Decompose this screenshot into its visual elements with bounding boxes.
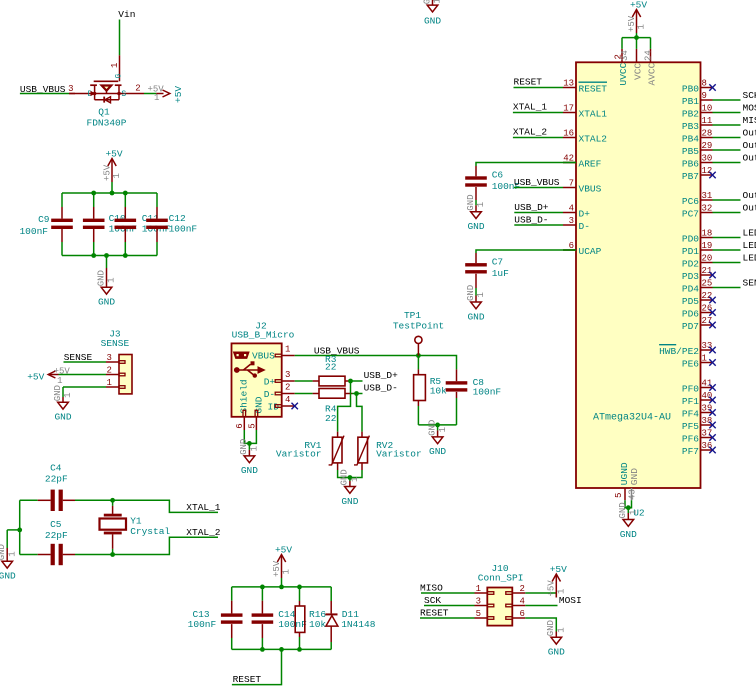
svg-text:24: 24 bbox=[643, 50, 653, 61]
no-connect PF6 bbox=[709, 434, 715, 440]
svg-text:C7: C7 bbox=[492, 257, 503, 268]
svg-text:100nF: 100nF bbox=[188, 619, 217, 630]
svg-text:26: 26 bbox=[702, 304, 713, 314]
junction bbox=[123, 191, 128, 196]
wire Vin vertical bbox=[119, 20, 121, 56]
wire USB_VBUS to Q1 drain bbox=[20, 93, 69, 95]
pin 28 PB4 bbox=[682, 129, 713, 145]
capacitor C6 100nF bbox=[465, 166, 520, 205]
svg-text:PD2: PD2 bbox=[682, 258, 699, 269]
pin GND bbox=[628, 468, 640, 500]
svg-text:Varistor: Varistor bbox=[376, 449, 422, 460]
svg-text:37: 37 bbox=[702, 429, 713, 439]
svg-text:D-: D- bbox=[264, 389, 275, 400]
svg-text:4: 4 bbox=[520, 597, 525, 607]
wire J10 pin4 MOSI bbox=[525, 605, 557, 607]
svg-text:USB_D-: USB_D- bbox=[364, 383, 398, 394]
capacitor C14 100nF bbox=[252, 587, 308, 650]
svg-text:1: 1 bbox=[438, 427, 448, 432]
svg-text:PB3: PB3 bbox=[682, 121, 699, 132]
transistor Q1 FDN340P bbox=[68, 55, 144, 128]
junction bbox=[247, 441, 252, 446]
svg-text:Conn_SPI: Conn_SPI bbox=[478, 572, 524, 583]
svg-text:PB6: PB6 bbox=[682, 158, 699, 169]
connector J3 SENSE bbox=[101, 329, 132, 394]
svg-text:GND: GND bbox=[427, 420, 437, 436]
capacitor C12 100nF bbox=[146, 193, 197, 256]
ground below J2 bbox=[239, 439, 259, 477]
wire PB2 to MOSI bbox=[713, 112, 741, 114]
svg-text:28: 28 bbox=[702, 129, 713, 139]
wire PC7 to Output bbox=[713, 212, 741, 214]
wire PB1 to SCK bbox=[713, 99, 741, 101]
connector J10 Conn_SPI bbox=[475, 563, 526, 626]
junction bbox=[110, 191, 115, 196]
svg-text:38: 38 bbox=[702, 416, 713, 426]
svg-text:PF0: PF0 bbox=[682, 383, 699, 394]
svg-text:1: 1 bbox=[57, 376, 62, 386]
no-connect PF5 bbox=[709, 422, 715, 428]
wire GND rail bottom bbox=[62, 255, 157, 257]
pin 26 PD6 bbox=[682, 304, 713, 320]
no-connect PB0 bbox=[709, 84, 715, 90]
svg-text:1: 1 bbox=[282, 569, 292, 574]
svg-text:PD6: PD6 bbox=[682, 308, 699, 319]
svg-text:Varistor: Varistor bbox=[276, 449, 322, 460]
wire MISO bbox=[421, 592, 475, 594]
pin 24 AVCC bbox=[643, 49, 657, 86]
pin 40 PF1 bbox=[682, 391, 713, 407]
pin 20 PD2 bbox=[682, 254, 713, 270]
ground below U2 bbox=[618, 502, 638, 540]
no-connect PF1 bbox=[709, 397, 715, 403]
svg-text:20: 20 bbox=[702, 254, 713, 264]
svg-text:RESET: RESET bbox=[233, 674, 262, 685]
pin 33 HWB/PE2 bbox=[659, 341, 712, 357]
svg-text:22: 22 bbox=[325, 413, 337, 424]
svg-text:1: 1 bbox=[557, 627, 567, 632]
resistor R3 22 bbox=[295, 354, 351, 386]
svg-text:GND: GND bbox=[340, 469, 350, 485]
svg-text:10k: 10k bbox=[430, 386, 447, 397]
svg-text:1: 1 bbox=[629, 510, 639, 515]
svg-text:LED_RX: LED_RX bbox=[743, 240, 756, 251]
svg-text:AREF: AREF bbox=[579, 158, 602, 169]
svg-text:FDN340P: FDN340P bbox=[87, 118, 127, 129]
svg-text:PD4: PD4 bbox=[682, 283, 699, 294]
svg-text:PD0: PD0 bbox=[682, 233, 699, 244]
svg-text:2: 2 bbox=[285, 383, 290, 393]
svg-text:1: 1 bbox=[476, 584, 481, 594]
svg-text:PC7: PC7 bbox=[682, 208, 699, 219]
no-connect J2 pin4 bbox=[292, 403, 298, 409]
wire USB_D- bbox=[514, 224, 563, 226]
junction bbox=[354, 391, 359, 396]
svg-text:USB_B_Micro: USB_B_Micro bbox=[232, 330, 295, 341]
svg-text:5: 5 bbox=[476, 609, 481, 619]
pin 3 D- bbox=[563, 216, 590, 232]
junction bbox=[104, 253, 109, 258]
svg-text:Vin: Vin bbox=[118, 9, 135, 20]
pin 41 PF0 bbox=[682, 379, 713, 395]
svg-text:2: 2 bbox=[135, 84, 140, 94]
power +5V right of J10 bbox=[547, 564, 567, 598]
pin 31 PC6 bbox=[682, 191, 713, 207]
svg-text:100nF: 100nF bbox=[473, 387, 502, 398]
pin 22 PD5 bbox=[682, 291, 713, 307]
svg-text:8: 8 bbox=[702, 79, 707, 89]
pin 29 PB5 bbox=[682, 141, 713, 157]
no-connect PD7 bbox=[709, 322, 715, 328]
pin 8 PB0 bbox=[682, 79, 713, 95]
svg-text:1: 1 bbox=[476, 202, 486, 207]
wire +5V rail top bbox=[62, 192, 157, 194]
pin 25 PD4 bbox=[682, 279, 713, 295]
junction bbox=[17, 528, 22, 533]
svg-text:3: 3 bbox=[285, 370, 290, 380]
svg-text:C4: C4 bbox=[50, 462, 62, 473]
junction bbox=[91, 191, 96, 196]
pin 27 PD7 bbox=[682, 316, 713, 332]
junction bbox=[279, 585, 284, 590]
svg-text:6: 6 bbox=[235, 423, 245, 428]
wire Q1 source to +5V bbox=[144, 93, 156, 95]
svg-text:C10: C10 bbox=[109, 213, 126, 224]
junction bbox=[110, 498, 115, 503]
pin 18 PD0 bbox=[682, 229, 713, 245]
svg-text:PE6: PE6 bbox=[682, 358, 699, 369]
ground below varistors bbox=[340, 469, 360, 507]
svg-text:MISO: MISO bbox=[420, 583, 443, 594]
svg-text:41: 41 bbox=[702, 379, 713, 389]
svg-text:XTAL1: XTAL1 bbox=[579, 108, 608, 119]
svg-text:+5V: +5V bbox=[550, 564, 567, 575]
wire PD0 to LED_TX bbox=[713, 237, 741, 239]
svg-text:VBUS: VBUS bbox=[252, 350, 275, 361]
wire SENSE to J3 pin3 bbox=[64, 361, 107, 363]
capacitor C10 100nF bbox=[83, 193, 138, 256]
svg-text:RESET: RESET bbox=[420, 608, 449, 619]
wire PB3 to MISO bbox=[713, 124, 741, 126]
wire UCAP to C7 bbox=[476, 250, 576, 253]
power +5V right of Q1 bbox=[148, 85, 185, 104]
svg-text:1: 1 bbox=[476, 292, 486, 297]
svg-text:Output: Output bbox=[743, 140, 756, 151]
wire J10 pin6 to GND bbox=[525, 618, 556, 632]
svg-text:1: 1 bbox=[154, 93, 159, 103]
svg-text:SENSE: SENSE bbox=[743, 277, 756, 288]
svg-text:C5: C5 bbox=[50, 519, 62, 530]
wire AREF stub bbox=[563, 162, 576, 164]
varistor RV1 bbox=[276, 436, 344, 465]
pin 13 RESET bbox=[563, 79, 607, 95]
junction bbox=[634, 35, 639, 40]
svg-text:+5V: +5V bbox=[547, 580, 557, 597]
svg-text:1: 1 bbox=[106, 378, 111, 388]
pin 19 PD1 bbox=[682, 241, 713, 257]
power +5V above cap bank bbox=[102, 149, 122, 194]
svg-text:3: 3 bbox=[476, 597, 481, 607]
diode D11 1N4148 bbox=[325, 587, 375, 650]
svg-text:PD7: PD7 bbox=[682, 321, 699, 332]
svg-text:PB0: PB0 bbox=[682, 83, 699, 94]
svg-text:22pF: 22pF bbox=[45, 530, 68, 541]
varistor RV2 bbox=[354, 436, 422, 465]
pin 6 UCAP bbox=[563, 241, 602, 257]
pin 38 PF5 bbox=[682, 416, 713, 432]
ground top middle bbox=[422, 0, 442, 27]
pin 5 UGND bbox=[614, 462, 630, 500]
svg-text:VBUS: VBUS bbox=[579, 183, 602, 194]
svg-text:22: 22 bbox=[702, 291, 713, 301]
svg-text:GND: GND bbox=[467, 311, 484, 322]
svg-text:PF1: PF1 bbox=[682, 396, 699, 407]
svg-text:GND: GND bbox=[429, 446, 446, 457]
junction bbox=[348, 379, 353, 384]
ground below J3 bbox=[53, 385, 73, 423]
svg-text:PD1: PD1 bbox=[682, 246, 699, 257]
svg-text:34: 34 bbox=[620, 50, 630, 61]
wire PD2 to LED_L bbox=[713, 262, 741, 264]
svg-text:MOSI: MOSI bbox=[743, 102, 756, 113]
resistor R4 22 bbox=[295, 389, 352, 424]
pin 17 XTAL1 bbox=[563, 104, 607, 120]
junction bbox=[297, 585, 302, 590]
svg-text:7: 7 bbox=[569, 179, 574, 189]
resistor R5 10k bbox=[414, 356, 448, 425]
svg-text:1N4148: 1N4148 bbox=[341, 619, 376, 630]
wire VCC rail bbox=[622, 37, 651, 39]
svg-text:GND: GND bbox=[629, 468, 640, 485]
connector J2 USB_B_Micro bbox=[232, 321, 295, 431]
svg-text:Q1: Q1 bbox=[98, 107, 110, 118]
wire AREF to C6 bbox=[476, 163, 576, 167]
wire to RESET label bbox=[232, 649, 282, 684]
pin 42 AREF bbox=[563, 154, 602, 170]
svg-text:PF6: PF6 bbox=[682, 433, 699, 444]
no-connect PB7 bbox=[709, 172, 715, 178]
svg-text:HWB/PE2: HWB/PE2 bbox=[659, 346, 699, 357]
svg-text:Output: Output bbox=[743, 127, 756, 138]
svg-text:PB2: PB2 bbox=[682, 108, 699, 119]
svg-text:GND: GND bbox=[466, 194, 476, 210]
svg-text:33: 33 bbox=[702, 341, 713, 351]
svg-text:PB1: PB1 bbox=[682, 96, 699, 107]
ground left of crystal bbox=[0, 544, 17, 582]
wire XTAL_2 bbox=[113, 537, 218, 554]
svg-text:SENSE: SENSE bbox=[101, 338, 130, 349]
svg-text:9: 9 bbox=[702, 91, 707, 101]
no-connect PD6 bbox=[709, 309, 715, 315]
wire XTAL_2 bbox=[513, 137, 563, 139]
svg-text:LED_L: LED_L bbox=[743, 252, 756, 263]
svg-text:USB_D+: USB_D+ bbox=[364, 370, 399, 381]
svg-text:GND: GND bbox=[0, 544, 7, 560]
svg-text:1: 1 bbox=[702, 354, 707, 364]
svg-text:GND: GND bbox=[0, 571, 16, 582]
wire XTAL_1 bbox=[513, 112, 563, 114]
power +5V left of J3 bbox=[27, 367, 70, 387]
wire USB_D+ bbox=[514, 212, 563, 214]
svg-text:Y1: Y1 bbox=[130, 515, 142, 526]
svg-text:USB_VBUS: USB_VBUS bbox=[314, 345, 360, 356]
svg-text:XTAL_1: XTAL_1 bbox=[186, 502, 221, 513]
svg-text:6: 6 bbox=[520, 609, 525, 619]
ground below J10 bbox=[546, 620, 566, 658]
svg-text:1uF: 1uF bbox=[492, 268, 509, 279]
pin 10 PB2 bbox=[682, 104, 713, 120]
svg-text:21: 21 bbox=[702, 266, 713, 276]
svg-text:Output: Output bbox=[743, 152, 756, 163]
no-connect PD3 bbox=[709, 272, 715, 278]
capacitor C5 22pF bbox=[20, 519, 113, 565]
svg-text:RESET: RESET bbox=[579, 83, 608, 94]
crystal Y1 bbox=[100, 500, 171, 554]
svg-text:GND: GND bbox=[239, 439, 249, 455]
svg-text:Output: Output bbox=[743, 202, 756, 213]
svg-text:USB_D-: USB_D- bbox=[514, 214, 548, 225]
svg-text:XTAL_1: XTAL_1 bbox=[513, 102, 548, 113]
svg-text:+5V: +5V bbox=[272, 560, 282, 577]
svg-text:D+: D+ bbox=[579, 208, 591, 219]
pin 9 PB1 bbox=[682, 91, 713, 107]
svg-text:GND: GND bbox=[618, 502, 628, 518]
svg-text:SCK: SCK bbox=[743, 90, 756, 101]
svg-text:100nF: 100nF bbox=[169, 223, 198, 234]
svg-text:GND: GND bbox=[98, 297, 115, 308]
wire D+ branch to RV1 bbox=[338, 381, 351, 432]
svg-text:UCAP: UCAP bbox=[579, 246, 602, 257]
svg-text:+5V: +5V bbox=[627, 15, 637, 32]
svg-text:1: 1 bbox=[112, 173, 122, 178]
svg-text:GND: GND bbox=[341, 496, 358, 507]
no-connect PF0 bbox=[709, 384, 715, 390]
svg-text:5: 5 bbox=[614, 493, 624, 498]
svg-text:GND: GND bbox=[466, 285, 476, 301]
junction bbox=[348, 475, 353, 480]
svg-text:16: 16 bbox=[563, 129, 574, 139]
wire RESET bbox=[420, 617, 475, 619]
svg-text:TP1: TP1 bbox=[404, 310, 421, 321]
svg-text:22: 22 bbox=[325, 362, 337, 373]
svg-text:27: 27 bbox=[702, 316, 713, 326]
pin 4 D+ bbox=[563, 204, 590, 220]
svg-text:+5V: +5V bbox=[275, 545, 292, 556]
svg-text:100nF: 100nF bbox=[278, 619, 307, 630]
svg-text:LED_TX: LED_TX bbox=[743, 227, 756, 238]
svg-text:PF4: PF4 bbox=[682, 408, 699, 419]
svg-text:1: 1 bbox=[433, 0, 443, 4]
wire PD1 to LED_RX bbox=[713, 249, 741, 251]
pin 34 VCC bbox=[620, 49, 643, 80]
svg-text:GND: GND bbox=[241, 465, 258, 476]
no-connect PF7 bbox=[709, 447, 715, 453]
svg-text:Shield: Shield bbox=[238, 379, 249, 413]
capacitor C9 100nF bbox=[19, 193, 72, 256]
svg-text:ATmega32U4-AU: ATmega32U4-AU bbox=[593, 413, 671, 424]
wire varistors to gnd bbox=[337, 463, 339, 470]
pin 21 PD3 bbox=[682, 266, 713, 282]
svg-text:USB_D+: USB_D+ bbox=[514, 202, 549, 213]
wire USB_D- bbox=[352, 393, 363, 395]
svg-text:PB4: PB4 bbox=[682, 133, 699, 144]
wire SCK bbox=[424, 605, 475, 607]
svg-text:1: 1 bbox=[63, 392, 73, 397]
junction bbox=[260, 585, 265, 590]
svg-text:1: 1 bbox=[250, 446, 260, 451]
svg-text:C9: C9 bbox=[38, 214, 50, 225]
power +5V above U2 bbox=[627, 0, 647, 38]
svg-text:PD5: PD5 bbox=[682, 296, 699, 307]
wire J2 shield-gnd hook bbox=[244, 430, 256, 443]
resistor R16 10k bbox=[295, 587, 326, 650]
svg-text:D-: D- bbox=[579, 221, 590, 232]
svg-text:USB_VBUS: USB_VBUS bbox=[514, 177, 560, 188]
ground below cap bank bbox=[96, 256, 116, 308]
svg-text:18: 18 bbox=[702, 229, 713, 239]
svg-text:PB7: PB7 bbox=[682, 171, 699, 182]
svg-text:1: 1 bbox=[637, 24, 647, 29]
svg-text:SCK: SCK bbox=[424, 595, 441, 606]
svg-text:100nF: 100nF bbox=[19, 226, 48, 237]
svg-text:AVCC: AVCC bbox=[646, 62, 657, 85]
svg-text:1: 1 bbox=[285, 345, 290, 355]
pin 16 XTAL2 bbox=[563, 129, 607, 145]
wire XTAL_1 bbox=[113, 500, 218, 512]
svg-text:GND: GND bbox=[96, 270, 106, 286]
svg-text:39: 39 bbox=[702, 404, 713, 414]
capacitor C8 100nF bbox=[446, 369, 502, 425]
wire R5/C8 gnd rail bbox=[418, 424, 456, 426]
svg-text:10: 10 bbox=[702, 104, 713, 114]
wire PD4 to SENSE bbox=[713, 287, 741, 289]
pin 1 PE6 bbox=[682, 354, 713, 370]
svg-text:RESET: RESET bbox=[514, 77, 543, 88]
junction bbox=[110, 552, 115, 557]
svg-text:5: 5 bbox=[247, 423, 257, 428]
svg-text:PF7: PF7 bbox=[682, 446, 699, 457]
svg-text:4: 4 bbox=[569, 204, 574, 214]
svg-text:D+: D+ bbox=[264, 376, 276, 387]
svg-text:4: 4 bbox=[285, 395, 290, 405]
pin 39 PF4 bbox=[682, 404, 713, 420]
svg-text:TestPoint: TestPoint bbox=[393, 321, 444, 332]
pin 36 PF7 bbox=[682, 441, 713, 457]
svg-text:2: 2 bbox=[520, 584, 525, 594]
no-connect PD5 bbox=[709, 297, 715, 303]
svg-text:S: S bbox=[121, 90, 126, 99]
svg-text:PD3: PD3 bbox=[682, 271, 699, 282]
svg-text:13: 13 bbox=[563, 79, 574, 89]
svg-text:GND: GND bbox=[422, 0, 432, 4]
svg-text:1: 1 bbox=[557, 589, 567, 594]
svg-text:GND: GND bbox=[424, 16, 441, 27]
svg-text:19: 19 bbox=[702, 241, 713, 251]
wire PC6 to Output bbox=[713, 199, 741, 201]
wire D- branch to RV2 bbox=[357, 394, 363, 432]
svg-text:30: 30 bbox=[702, 154, 713, 164]
ic U2 ATmega32U4-AU bbox=[576, 62, 701, 488]
power +5V above reset block bbox=[272, 545, 292, 587]
pin 7 VBUS bbox=[563, 179, 602, 195]
wire USB_D+ bbox=[351, 380, 363, 382]
svg-text:XTAL_2: XTAL_2 bbox=[186, 527, 221, 538]
junction bbox=[91, 253, 96, 258]
svg-text:3: 3 bbox=[106, 353, 111, 363]
svg-text:UVCC: UVCC bbox=[618, 62, 629, 85]
pin 12 PB7 bbox=[682, 166, 713, 182]
capacitor C13 100nF bbox=[188, 587, 243, 650]
